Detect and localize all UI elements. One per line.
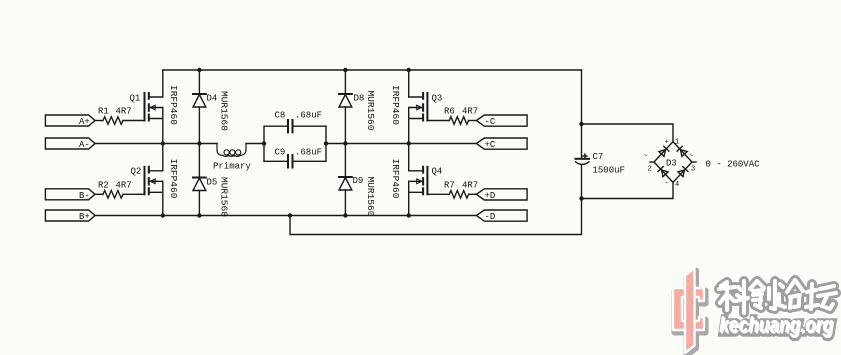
svg-text:4R7: 4R7 bbox=[462, 180, 478, 190]
junction B+ rail at Q2 bbox=[161, 213, 165, 217]
resistor R7 bbox=[444, 180, 478, 198]
svg-text:~: ~ bbox=[644, 153, 648, 161]
junction top rail at Q3 bbox=[407, 68, 411, 72]
wire primary to C8 box bbox=[246, 143, 264, 145]
wire Q4 source to B+ rail bbox=[408, 181, 410, 215]
transistor Q4 IRFP460 bbox=[390, 159, 442, 199]
transistor Q2 IRFP460 bbox=[131, 159, 180, 199]
wire Q4 gate to R7 bbox=[427, 193, 449, 195]
transistor Q3 IRFP460 bbox=[390, 85, 442, 125]
svg-text:1: 1 bbox=[675, 139, 679, 147]
svg-text:IRFP460: IRFP460 bbox=[168, 159, 179, 199]
svg-text:R1: R1 bbox=[98, 107, 109, 117]
connector A- bbox=[45, 138, 95, 150]
bridge diode right-top bbox=[677, 146, 687, 156]
connector B- bbox=[45, 189, 95, 201]
wire A- / primary line left segment bbox=[95, 143, 217, 145]
svg-text:Q2: Q2 bbox=[131, 167, 142, 177]
wire top rail down to C7 bbox=[581, 70, 583, 158]
bridge diode left-bottom bbox=[658, 167, 668, 177]
svg-text:IRFP460: IRFP460 bbox=[168, 85, 179, 125]
svg-text:A+: A+ bbox=[79, 117, 90, 127]
svg-text:-: - bbox=[665, 180, 669, 188]
wire C7 bottom to bridge - terminal bbox=[582, 182, 674, 198]
watermark text 科创论坛 bbox=[719, 280, 836, 313]
wire Q3 drain to top rail bbox=[408, 70, 410, 97]
svg-text:Q1: Q1 bbox=[130, 94, 141, 104]
diode D4 MUR1560 bbox=[193, 70, 230, 144]
wire R1 to Q1 gate bbox=[123, 120, 145, 122]
wire B- to R2 bbox=[95, 193, 103, 195]
diode D9 MUR1560 bbox=[339, 144, 376, 217]
wire B+ bottom rail to -D output bbox=[95, 215, 476, 217]
resistor R1 bbox=[98, 107, 132, 125]
junction A- line at C8 box left bbox=[262, 141, 266, 145]
svg-text:IRFP460: IRFP460 bbox=[390, 159, 401, 199]
svg-text:4R7: 4R7 bbox=[116, 107, 132, 117]
connector +D bbox=[476, 189, 527, 201]
transistor Q1 IRFP460 bbox=[130, 85, 180, 125]
svg-text:C8: C8 bbox=[275, 111, 286, 121]
wire R2 to Q2 gate bbox=[123, 193, 145, 195]
wire C7 top to bridge + terminal bbox=[582, 124, 674, 142]
wire Q3 source to +C line bbox=[408, 108, 410, 144]
svg-text:+D: +D bbox=[485, 191, 496, 201]
svg-text:D9: D9 bbox=[353, 176, 364, 186]
wire Q1 drain to top rail bbox=[162, 70, 164, 97]
wire Q3 gate to R6 bbox=[427, 120, 449, 122]
svg-text:R2: R2 bbox=[98, 180, 109, 190]
watermark text kechuang.org bbox=[719, 312, 835, 339]
wire Q2 source to B+ rail bbox=[162, 181, 164, 215]
svg-text:B+: B+ bbox=[79, 212, 90, 222]
connector +C bbox=[476, 138, 527, 150]
svg-text:C9: C9 bbox=[275, 147, 286, 157]
junction +C line at Q3/Q4 bbox=[407, 141, 411, 145]
svg-text:kechuang.org: kechuang.org bbox=[719, 312, 833, 337]
connector -D bbox=[476, 210, 527, 222]
svg-text:4R7: 4R7 bbox=[462, 107, 478, 117]
svg-text:2: 2 bbox=[648, 166, 652, 174]
connector -C bbox=[476, 115, 527, 127]
svg-text:3: 3 bbox=[691, 166, 695, 174]
junction A- line at Q1/Q2 bbox=[161, 141, 165, 145]
svg-text:Q4: Q4 bbox=[432, 167, 443, 177]
junction B+ rail at D9 bbox=[343, 213, 347, 217]
junction A- line at D4/D5 bbox=[197, 141, 201, 145]
svg-text:0 - 260VAC: 0 - 260VAC bbox=[706, 160, 761, 170]
junction C7 bottom at bridge branch bbox=[579, 196, 583, 200]
svg-text:Primary: Primary bbox=[213, 162, 251, 172]
svg-text:Q3: Q3 bbox=[432, 94, 443, 104]
capacitor C7 1500uF bbox=[576, 152, 625, 176]
resistor R2 bbox=[98, 180, 132, 198]
svg-text:4R7: 4R7 bbox=[116, 180, 132, 190]
wire Q4 drain to +C line bbox=[408, 144, 410, 171]
wire R7 to +D connector bbox=[469, 193, 477, 195]
diode D5 MUR1560 bbox=[193, 144, 230, 218]
svg-text:MUR1560: MUR1560 bbox=[365, 177, 376, 217]
svg-text:MUR1560: MUR1560 bbox=[219, 177, 230, 217]
svg-text:R7: R7 bbox=[444, 180, 455, 190]
svg-text:IRFP460: IRFP460 bbox=[390, 85, 401, 125]
svg-text:D8: D8 bbox=[354, 94, 365, 104]
wire Q2 drain to A- line bbox=[162, 144, 164, 171]
svg-text:B-: B- bbox=[79, 191, 90, 201]
capacitor C9 .68uF bbox=[264, 126, 326, 167]
svg-text:+C: +C bbox=[485, 140, 496, 150]
wire top positive rail bbox=[163, 69, 582, 71]
svg-text:4: 4 bbox=[675, 181, 679, 189]
bridge diode left-top bbox=[659, 146, 669, 156]
inductor Primary winding bbox=[213, 144, 251, 172]
junction B+ rail at D5 bbox=[197, 213, 201, 217]
wire R6 to -C connector bbox=[469, 120, 477, 122]
junction top rail at D4 bbox=[197, 68, 201, 72]
junction C7 top at bridge branch bbox=[579, 122, 583, 126]
svg-text:-D: -D bbox=[485, 212, 496, 222]
svg-text:.68uF: .68uF bbox=[295, 147, 322, 157]
svg-text:D3: D3 bbox=[666, 159, 677, 169]
svg-text:.68uF: .68uF bbox=[295, 111, 322, 121]
wire Q1 source to A- line bbox=[162, 108, 164, 144]
svg-text:-C: -C bbox=[485, 117, 496, 127]
svg-text:+: + bbox=[665, 139, 669, 147]
junction B+ rail at Q4 bbox=[407, 213, 411, 217]
resistor R6 bbox=[444, 107, 478, 125]
connector A+ bbox=[45, 115, 95, 127]
bridge AC stub left bbox=[650, 161, 654, 163]
wire C7 bottom down and left to B+ rail bbox=[290, 165, 582, 235]
bridge rectifier D3 bbox=[654, 142, 692, 183]
junction top rail at D8 bbox=[343, 68, 347, 72]
junction +C line at C8 box right bbox=[324, 141, 328, 145]
svg-text:~: ~ bbox=[689, 153, 693, 161]
svg-text:D4: D4 bbox=[207, 94, 218, 104]
svg-text:A-: A- bbox=[79, 140, 90, 150]
diode D8 MUR1560 bbox=[339, 70, 376, 144]
bridge AC stub right bbox=[692, 161, 696, 163]
svg-text:R6: R6 bbox=[444, 107, 455, 117]
wire A+ to R1 bbox=[95, 120, 103, 122]
svg-text:C7: C7 bbox=[593, 152, 604, 162]
connector B+ bbox=[45, 210, 95, 222]
svg-text:MUR1560: MUR1560 bbox=[365, 91, 376, 131]
svg-text:MUR1560: MUR1560 bbox=[219, 91, 230, 131]
bridge diode right-bottom bbox=[678, 167, 688, 177]
svg-text:D5: D5 bbox=[207, 178, 218, 188]
wire C8 box to +C output bbox=[326, 143, 476, 145]
svg-text:1500uF: 1500uF bbox=[593, 166, 625, 176]
capacitor C8 .68uF bbox=[264, 111, 326, 162]
watermark kechuang logo bbox=[673, 268, 706, 355]
junction B+ rail at C7 return bbox=[288, 213, 292, 217]
junction +C line at D8/D9 bbox=[343, 141, 347, 145]
